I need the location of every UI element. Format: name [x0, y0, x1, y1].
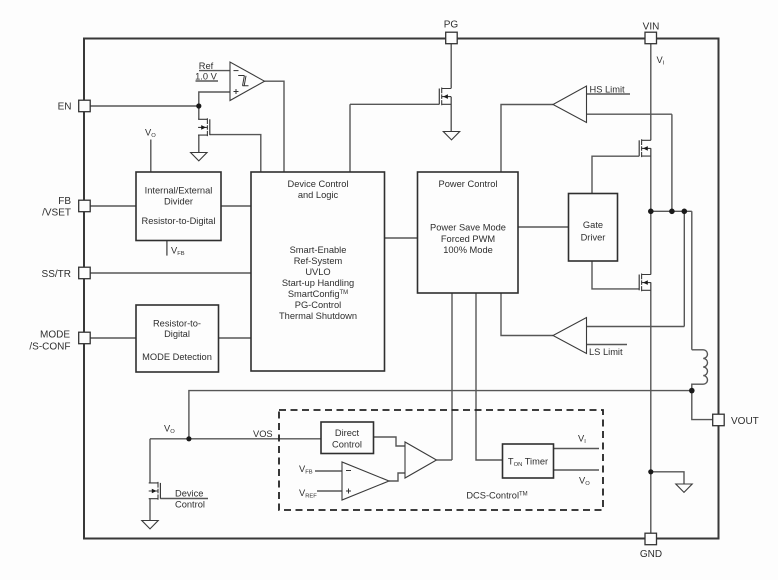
- svg-text:Resistor-to-: Resistor-to-: [153, 319, 201, 329]
- svg-text:VREF: VREF: [299, 488, 317, 500]
- svg-text:VOS: VOS: [253, 429, 273, 439]
- svg-text:Direct: Direct: [335, 428, 360, 438]
- svg-text:Forced PWM: Forced PWM: [441, 234, 495, 244]
- svg-text:Driver: Driver: [581, 233, 606, 243]
- svg-text:Gate: Gate: [583, 220, 603, 230]
- svg-text:Device Control: Device Control: [288, 179, 349, 189]
- svg-text:DCS-ControlTM: DCS-ControlTM: [466, 491, 527, 501]
- svg-text:Smart-Enable: Smart-Enable: [290, 245, 347, 255]
- svg-text:VO: VO: [164, 424, 175, 436]
- svg-text:HS Limit: HS Limit: [590, 85, 626, 95]
- svg-text:Digital: Digital: [164, 329, 190, 339]
- svg-text:GND: GND: [640, 549, 662, 560]
- svg-text:FB: FB: [58, 196, 71, 207]
- svg-text:VI: VI: [578, 434, 586, 446]
- svg-text:Control: Control: [332, 440, 362, 450]
- svg-text:Power Save Mode: Power Save Mode: [430, 223, 506, 233]
- svg-text:Resistor-to-Digital: Resistor-to-Digital: [142, 216, 216, 226]
- svg-text:/S-CONF: /S-CONF: [29, 342, 70, 353]
- svg-text:Ref: Ref: [199, 61, 214, 71]
- svg-text:VIN: VIN: [643, 22, 660, 33]
- svg-text:SmartConfigTM: SmartConfigTM: [288, 289, 348, 299]
- svg-text:1.0 V: 1.0 V: [195, 72, 218, 82]
- svg-text:SS/TR: SS/TR: [42, 269, 71, 280]
- svg-text:VI: VI: [657, 55, 665, 67]
- svg-text:LS Limit: LS Limit: [589, 347, 623, 357]
- svg-text:and Logic: and Logic: [298, 190, 339, 200]
- svg-text:Divider: Divider: [164, 197, 193, 207]
- svg-text:VFB: VFB: [171, 246, 185, 258]
- svg-text:Power Control: Power Control: [439, 179, 498, 189]
- svg-text:EN: EN: [58, 102, 72, 113]
- svg-text:Internal/External: Internal/External: [145, 186, 213, 196]
- svg-text:Control: Control: [175, 500, 205, 510]
- svg-text:Device: Device: [175, 489, 203, 499]
- svg-text:MODE: MODE: [40, 330, 70, 341]
- svg-text:PG-Control: PG-Control: [295, 300, 342, 310]
- svg-text:VOUT: VOUT: [731, 416, 759, 427]
- svg-text:Thermal Shutdown: Thermal Shutdown: [279, 311, 357, 321]
- svg-text:VO: VO: [579, 476, 590, 488]
- svg-text:VO: VO: [145, 128, 156, 140]
- svg-text:VFB: VFB: [299, 464, 313, 476]
- svg-text:PG: PG: [444, 20, 459, 31]
- svg-text:100% Mode: 100% Mode: [443, 245, 493, 255]
- svg-text:MODE Detection: MODE Detection: [142, 352, 212, 362]
- svg-text:/VSET: /VSET: [42, 208, 71, 219]
- svg-text:Start-up Handling: Start-up Handling: [282, 278, 354, 288]
- svg-text:UVLO: UVLO: [305, 267, 330, 277]
- svg-text:Ref-System: Ref-System: [294, 256, 343, 266]
